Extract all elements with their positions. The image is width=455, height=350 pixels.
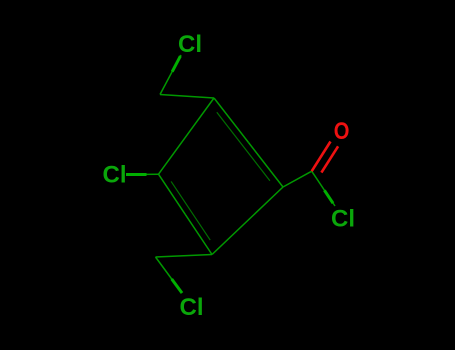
svg-text:Cl: Cl [178, 31, 202, 58]
svg-text:Cl: Cl [331, 206, 355, 233]
svg-text:Cl: Cl [180, 294, 204, 321]
svg-text:Cl: Cl [103, 162, 127, 189]
svg-text:O: O [334, 117, 350, 144]
